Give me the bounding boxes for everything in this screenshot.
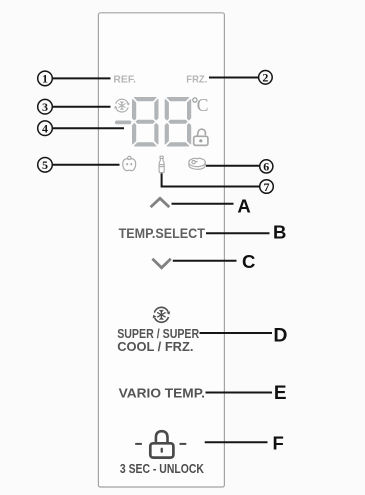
svg-text:D: D — [273, 324, 287, 346]
callout line 5 to apple icon — [53, 164, 120, 166]
svg-text:B: B — [273, 221, 286, 242]
svg-text:VARIO TEMP.: VARIO TEMP. — [119, 386, 205, 401]
callout line SUPER to D — [200, 332, 273, 334]
callout line meat icon to 6 — [206, 165, 260, 167]
svg-text:F: F — [273, 432, 284, 453]
bottle icon (callout 7) — [159, 156, 164, 172]
svg-text:E: E — [274, 383, 287, 404]
callout circle 2 — [259, 71, 273, 85]
callout line 3 to snowflake icon — [53, 106, 111, 108]
svg-text:2: 2 — [262, 71, 268, 85]
svg-text:REF.: REF. — [113, 74, 136, 85]
meat/ham icon (callout 6) — [189, 158, 205, 169]
svg-text:COOL / FRZ.: COOL / FRZ. — [117, 339, 193, 354]
callout circle 1 — [38, 71, 53, 86]
callout line lock to F — [205, 441, 268, 443]
svg-text:FRZ.: FRZ. — [186, 74, 207, 85]
up arrow button (A) — [151, 198, 170, 207]
svg-text:7: 7 — [264, 180, 270, 194]
callout line TEMP.SELECT to B — [206, 232, 270, 234]
svg-text:1: 1 — [42, 72, 48, 86]
callout line down-arrow to C — [173, 260, 237, 262]
svg-text:3 SEC - UNLOCK: 3 SEC - UNLOCK — [120, 461, 204, 476]
7-segment digit 8 (left) — [132, 97, 158, 101]
callout line 4 to digit display — [53, 127, 124, 129]
super cool/frz snowflake icon (D) — [154, 307, 168, 312]
callout circle 4 — [38, 121, 53, 136]
degree C symbol — [193, 98, 197, 102]
svg-text:C: C — [197, 95, 209, 115]
callout line 1 to REF — [53, 77, 111, 79]
callout line bottle icon to 7 — [162, 173, 260, 186]
dash right of lock — [180, 443, 187, 445]
svg-text:3: 3 — [42, 100, 48, 114]
svg-text:C: C — [242, 251, 255, 272]
callout circle 7 — [260, 180, 274, 194]
super-cool snowflake icon (callout 3) — [116, 99, 128, 104]
svg-text:A: A — [237, 196, 250, 217]
unlock icon (display) — [197, 129, 206, 138]
callout line FRZ to 2 — [209, 77, 259, 79]
svg-text:TEMP.SELECT: TEMP.SELECT — [119, 226, 206, 241]
callout circle 5 — [38, 158, 53, 173]
svg-text:6: 6 — [263, 160, 269, 174]
callout line VARIO TEMP to E — [206, 392, 273, 394]
panel outline — [98, 13, 224, 487]
apple icon (callout 5) — [123, 156, 136, 170]
callout circle 6 — [260, 160, 273, 173]
lock icon (F) body — [150, 443, 173, 457]
minus sign segment — [115, 121, 131, 125]
lock icon (F) keyhole — [161, 448, 163, 453]
7-segment digit 8 (right) — [165, 97, 191, 101]
svg-text:4: 4 — [42, 122, 48, 136]
svg-text:5: 5 — [42, 158, 48, 172]
callout line up-arrow to A — [172, 203, 234, 205]
callout circle 3 — [38, 99, 53, 114]
down arrow button (C) — [152, 259, 170, 268]
lock icon (F) shackle — [156, 431, 168, 443]
dash left of lock — [135, 443, 142, 445]
